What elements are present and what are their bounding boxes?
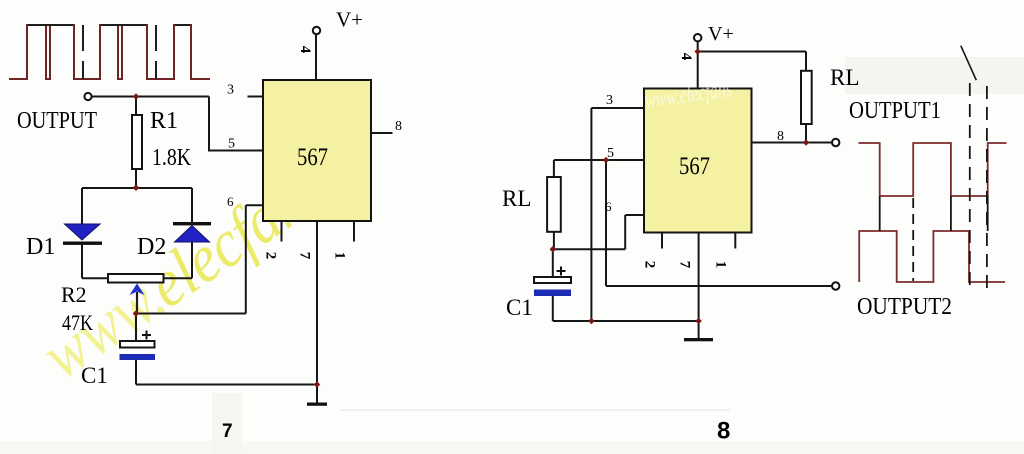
svg-text:7: 7 bbox=[297, 252, 313, 260]
svg-text:1.8K: 1.8K bbox=[152, 145, 192, 171]
svg-text:8: 8 bbox=[395, 119, 402, 134]
svg-text:1: 1 bbox=[332, 252, 348, 260]
svg-text:7: 7 bbox=[677, 261, 693, 269]
svg-text:C1: C1 bbox=[506, 295, 533, 320]
svg-text:1: 1 bbox=[713, 261, 729, 269]
svg-text:4: 4 bbox=[678, 53, 694, 61]
svg-text:V+: V+ bbox=[336, 8, 363, 32]
svg-text:4: 4 bbox=[297, 46, 313, 54]
svg-text:RL: RL bbox=[502, 186, 531, 211]
svg-text:C1: C1 bbox=[81, 363, 108, 388]
svg-text:D1: D1 bbox=[26, 234, 55, 260]
svg-text:R1: R1 bbox=[150, 108, 178, 134]
svg-text:567: 567 bbox=[679, 153, 710, 180]
svg-text:3: 3 bbox=[606, 93, 613, 108]
svg-text:6: 6 bbox=[227, 194, 234, 209]
svg-text:RL: RL bbox=[830, 65, 859, 90]
svg-text:R2: R2 bbox=[61, 282, 87, 307]
svg-text:6: 6 bbox=[605, 199, 612, 214]
svg-text:OUTPUT: OUTPUT bbox=[17, 108, 97, 134]
svg-text:OUTPUT1: OUTPUT1 bbox=[849, 98, 941, 124]
svg-text:D2: D2 bbox=[137, 234, 166, 260]
svg-text:7: 7 bbox=[222, 421, 233, 442]
svg-text:2: 2 bbox=[263, 252, 279, 260]
svg-text:567: 567 bbox=[297, 144, 328, 171]
svg-text:V+: V+ bbox=[708, 23, 734, 45]
svg-text:8: 8 bbox=[777, 129, 784, 144]
svg-text:47K: 47K bbox=[62, 310, 93, 335]
svg-text:2: 2 bbox=[642, 261, 658, 269]
svg-text:8: 8 bbox=[717, 418, 730, 445]
svg-text:5: 5 bbox=[228, 137, 235, 152]
svg-text:3: 3 bbox=[227, 83, 234, 98]
svg-text:OUTPUT2: OUTPUT2 bbox=[857, 294, 952, 320]
svg-text:5: 5 bbox=[607, 146, 614, 161]
